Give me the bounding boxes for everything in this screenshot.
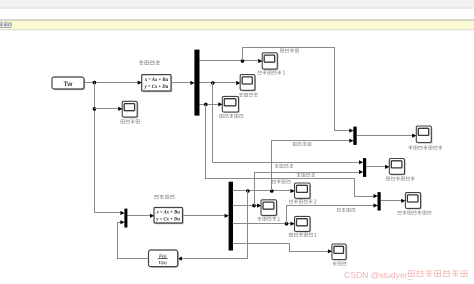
label 路面位移 (121, 119, 140, 123)
arrow into scope actuator-force (328, 249, 332, 253)
scope wheel dynamic load (222, 96, 239, 113)
source block Tw (52, 77, 85, 90)
svg-text:U(s): U(s) (159, 260, 167, 265)
arrow into actuator block (178, 257, 182, 261)
mux M2 suspension displacement compare (363, 158, 366, 177)
arrow into scope wheel-load (218, 102, 222, 106)
yellow info strip (0, 19, 474, 22)
svg-text:1: 1 (282, 71, 285, 77)
scope road displacement (122, 101, 138, 118)
svg-text:y = Cx + Du: y = Cx + Du (155, 218, 180, 223)
arrow into road displacement scope (118, 107, 122, 111)
arrow into passive state-space (138, 81, 142, 85)
arrow into active state-space (150, 214, 154, 218)
wire passive wheel-load feed to mux M3 (206, 105, 375, 197)
wire demux2 out1 body acceleration active (233, 190, 292, 192)
label 悬架位移1 (258, 217, 281, 223)
top toolbar bar (0, 0, 474, 8)
arrow into demux D2 (225, 214, 229, 218)
junction node road-displacement branch (93, 107, 97, 111)
scope actuator force (332, 244, 347, 261)
wire demux2 out2 suspension displacement active (233, 205, 259, 207)
label 车轮动载荷1 (289, 233, 317, 239)
mux M4 active suspension inputs (124, 209, 127, 228)
label 悬架位移 (239, 93, 258, 97)
arrow into scope body-accel-2 (291, 189, 295, 193)
wire mux M4 to active state-space (128, 215, 152, 217)
wire active accel feed to mux M1 (272, 141, 351, 191)
svg-text:1: 1 (277, 217, 280, 223)
wire feedback to actuator transfer function (181, 191, 248, 259)
wire passive state-space to demux1 (171, 82, 192, 84)
arrow into mux M3 input 2 (374, 203, 378, 207)
arrow into mux M1 input 1 (349, 129, 353, 133)
state-space block passive suspension (142, 75, 173, 93)
label 车身加速度2 (289, 199, 317, 205)
mux M3 wheel load compare (378, 192, 381, 210)
demux D2 active outputs (229, 182, 233, 251)
wire passive displacement feed to mux M2 (213, 83, 361, 163)
arrow into mux M3 input 1 (374, 194, 378, 198)
wire demux2 out3 wheel load active (233, 223, 292, 225)
transfer function block actuator F(s)/U(s) (149, 250, 179, 268)
junction node passive displacement branch (211, 81, 215, 85)
label 车轮动载荷 (220, 114, 243, 118)
junction node active wheel-load branch (285, 222, 289, 226)
demux D1 passive outputs (194, 50, 199, 116)
arrow into demux1 (190, 81, 194, 85)
label 被动悬架 on top wire (280, 49, 298, 53)
watermark CSDN (344, 270, 467, 280)
label 被动悬架 on mux M2 wire (275, 164, 293, 168)
arrow into scope wheel-load-1 (291, 222, 295, 226)
svg-text:F(s): F(s) (159, 253, 167, 258)
svg-text:Tw: Tw (64, 81, 74, 88)
svg-text:1: 1 (314, 233, 317, 239)
label 车身加速度对比 (409, 146, 442, 150)
svg-text:x = Ax + Bu: x = Ax + Bu (144, 78, 169, 83)
wire demux2 out4 actuator force to scope (233, 244, 330, 252)
link text in strip (0, 22, 12, 27)
wire active wheel-load feed to mux M3 (287, 206, 375, 224)
wire demux1 out3 wheel dynamic load (200, 104, 220, 106)
wire mux M2 to compare scope (367, 166, 387, 168)
label 被动悬架 above passive state-space (139, 60, 160, 64)
arrow into mux M4 input 2 (120, 220, 124, 224)
arrow into mux M2 input 1 (359, 160, 363, 164)
scope body acceleration 2 (295, 183, 312, 199)
label 主动悬架 on mux M1 wire (293, 142, 311, 146)
arrow into scope wheel-load-compare (401, 199, 405, 203)
junction node passive wheel-load branch (204, 103, 208, 107)
wire active state-space to demux D2 (183, 215, 226, 217)
svg-text:CSDN @studyer_: CSDN @studyer_ (344, 270, 413, 280)
svg-text:y = Cx + Du: y = Cx + Du (144, 85, 169, 90)
wire mux M1 to compare scope (357, 135, 414, 137)
scope suspension displacement (240, 75, 256, 92)
arrow into scope suspension-displacement-1 (257, 204, 261, 208)
wire passive accel feed to mux M1 (243, 48, 351, 131)
wire demux1 out1 body acceleration (200, 60, 260, 62)
svg-text:2: 2 (314, 200, 317, 206)
junction node actuator feedback branch (246, 189, 250, 193)
wire Tw branch down to mux4 (95, 83, 122, 213)
arrow into scope suspension-displacement (236, 81, 240, 85)
label 主动悬架 on mux M3 wire (337, 208, 355, 212)
arrow into scope body-accel-compare (412, 134, 416, 138)
svg-text:x = Ax + Bu: x = Ax + Bu (155, 211, 180, 216)
wire active displacement feed to mux M2 (255, 173, 361, 206)
arrow into mux M2 input 2 (359, 170, 363, 174)
label 悬架位移对比 (386, 177, 414, 181)
arrow into scope body-accel-1 (258, 59, 262, 63)
wire demux1 out2 suspension displacement (200, 82, 238, 84)
junction node active displacement branch (252, 204, 256, 208)
label 主动悬架 on mux M2 wire (297, 173, 315, 177)
arrow into mux4 input 1 (120, 211, 124, 215)
label 车轮动载荷对比 (398, 211, 432, 215)
scope body acceleration compare (416, 126, 432, 144)
label 车身加速度1 (258, 70, 286, 76)
scope wheel dynamic load 1 (295, 216, 312, 232)
arrow into scope suspension-displacement-compare (385, 165, 389, 169)
scope wheel dynamic load compare (405, 193, 421, 210)
label 作动力 (333, 262, 347, 266)
label 被动悬架 on mux M3 wire (272, 180, 290, 184)
scope body acceleration 1 (262, 53, 278, 70)
arrow into mux M1 input 2 (349, 139, 353, 143)
wire branch to road displacement scope (95, 108, 120, 110)
label 主动悬架 above active state-space (154, 195, 174, 199)
wire actuator output feedback to mux M4 (118, 223, 149, 259)
scope suspension displacement 1 (261, 200, 278, 217)
junction node active accel branch (270, 189, 274, 193)
wire Tw output to passive state-space (85, 82, 139, 84)
junction node Tw branch (93, 81, 97, 85)
wire mux M3 to compare scope (381, 200, 403, 202)
state-space block active suspension (154, 208, 184, 225)
junction node passive accel branch (241, 59, 245, 63)
scope suspension displacement compare (389, 159, 405, 176)
mux M1 body acceleration compare (353, 127, 356, 145)
